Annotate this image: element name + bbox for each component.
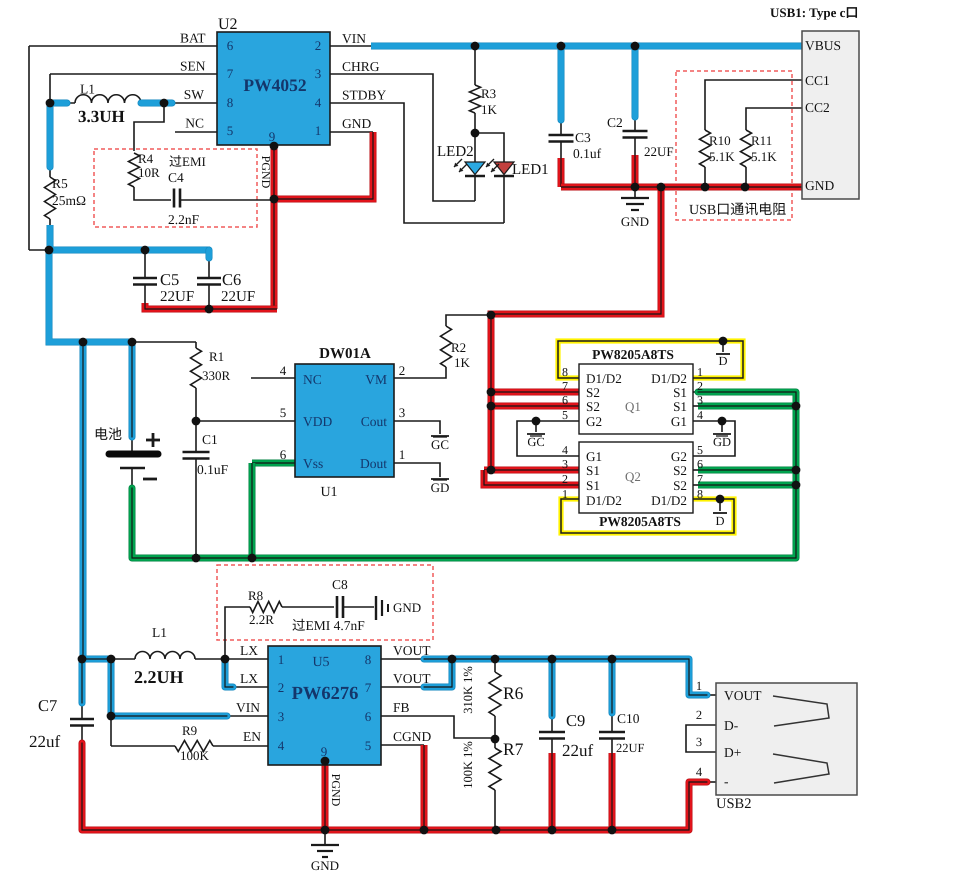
svg-text:C9: C9 — [566, 711, 585, 730]
svg-text:VM: VM — [365, 372, 387, 387]
svg-text:6: 6 — [697, 457, 703, 471]
svg-text:-: - — [724, 774, 729, 789]
svg-text:S1: S1 — [673, 399, 687, 414]
svg-text:C10: C10 — [617, 711, 640, 726]
svg-text:R4: R4 — [138, 151, 154, 166]
svg-text:LX: LX — [240, 671, 258, 686]
svg-text:3: 3 — [315, 66, 322, 81]
svg-text:USB1: Type c口: USB1: Type c口 — [770, 5, 858, 20]
svg-text:R5: R5 — [52, 176, 68, 191]
svg-text:PW6276: PW6276 — [292, 684, 359, 704]
svg-text:G1: G1 — [586, 449, 602, 464]
svg-text:PW8205A8TS: PW8205A8TS — [592, 347, 674, 362]
svg-text:VDD: VDD — [303, 414, 332, 429]
svg-text:5: 5 — [365, 738, 372, 753]
svg-text:Q2: Q2 — [625, 469, 641, 484]
svg-text:过EMI 4.7nF: 过EMI 4.7nF — [292, 618, 365, 633]
svg-text:5.1K: 5.1K — [751, 149, 777, 164]
svg-text:USB2: USB2 — [716, 796, 751, 812]
svg-text:GC: GC — [527, 435, 544, 449]
svg-text:0.1uF: 0.1uF — [197, 462, 229, 477]
svg-text:3: 3 — [399, 405, 406, 420]
svg-text:Q1: Q1 — [625, 399, 641, 414]
svg-text:C8: C8 — [332, 577, 348, 592]
svg-text:1: 1 — [697, 365, 703, 379]
svg-text:EN: EN — [243, 729, 261, 744]
svg-text:R7: R7 — [503, 739, 524, 759]
svg-text:3: 3 — [562, 457, 568, 471]
svg-text:4: 4 — [697, 408, 703, 422]
svg-text:LED2: LED2 — [437, 144, 474, 160]
svg-text:L1: L1 — [152, 625, 167, 640]
svg-text:3: 3 — [278, 709, 285, 724]
svg-text:U1: U1 — [320, 485, 337, 500]
svg-text:DW01A: DW01A — [319, 346, 371, 362]
svg-text:R11: R11 — [751, 133, 772, 148]
svg-text:G2: G2 — [671, 449, 687, 464]
svg-text:BAT: BAT — [180, 31, 206, 46]
svg-text:8: 8 — [227, 95, 234, 110]
svg-text:S2: S2 — [673, 478, 687, 493]
svg-text:5.1K: 5.1K — [709, 149, 735, 164]
svg-text:22UF: 22UF — [616, 741, 645, 755]
svg-text:S2: S2 — [673, 463, 687, 478]
svg-text:D1/D2: D1/D2 — [651, 493, 687, 508]
svg-text:2: 2 — [697, 379, 703, 393]
svg-text:VBUS: VBUS — [805, 38, 841, 53]
svg-text:CHRG: CHRG — [342, 59, 380, 74]
svg-text:GC: GC — [431, 437, 449, 452]
svg-text:GD: GD — [713, 435, 731, 449]
svg-text:过EMI: 过EMI — [169, 154, 206, 169]
svg-text:2.2nF: 2.2nF — [168, 212, 200, 227]
svg-text:G2: G2 — [586, 414, 602, 429]
svg-text:D+: D+ — [724, 745, 741, 760]
svg-text:VOUT: VOUT — [393, 643, 431, 658]
svg-text:CC2: CC2 — [805, 100, 830, 115]
svg-text:2.2UH: 2.2UH — [134, 667, 184, 687]
svg-text:U5: U5 — [312, 655, 329, 670]
svg-text:6: 6 — [562, 393, 568, 407]
svg-text:CC1: CC1 — [805, 73, 830, 88]
svg-text:2: 2 — [278, 680, 285, 695]
svg-text:8: 8 — [562, 365, 568, 379]
svg-text:VIN: VIN — [342, 31, 366, 46]
svg-text:C2: C2 — [607, 115, 623, 130]
svg-text:PW8205A8TS: PW8205A8TS — [599, 514, 681, 529]
svg-text:3: 3 — [696, 735, 702, 749]
svg-text:D: D — [718, 354, 727, 368]
svg-text:R8: R8 — [248, 588, 263, 603]
svg-text:Dout: Dout — [360, 456, 387, 471]
svg-text:1: 1 — [399, 447, 406, 462]
svg-text:PW4052: PW4052 — [243, 75, 306, 95]
svg-text:SW: SW — [184, 87, 205, 102]
svg-text:1K: 1K — [481, 102, 498, 117]
svg-text:0.1uf: 0.1uf — [573, 146, 602, 161]
svg-text:2.2R: 2.2R — [249, 612, 274, 627]
svg-text:2: 2 — [399, 363, 406, 378]
svg-text:LED1: LED1 — [512, 162, 549, 178]
svg-text:2: 2 — [562, 472, 568, 486]
svg-text:GND: GND — [342, 116, 371, 131]
svg-text:4: 4 — [315, 95, 322, 110]
svg-text:GD: GD — [431, 480, 450, 495]
svg-text:R3: R3 — [481, 86, 496, 101]
svg-text:6: 6 — [365, 709, 372, 724]
svg-text:G1: G1 — [671, 414, 687, 429]
svg-text:10R: 10R — [138, 165, 160, 180]
svg-text:Cout: Cout — [361, 414, 388, 429]
svg-text:7: 7 — [227, 66, 234, 81]
svg-text:2: 2 — [315, 38, 322, 53]
svg-text:22UF: 22UF — [160, 289, 194, 305]
svg-text:NC: NC — [185, 116, 204, 131]
svg-text:4: 4 — [696, 765, 703, 779]
svg-text:100K 1%: 100K 1% — [461, 741, 475, 789]
svg-text:3: 3 — [697, 393, 703, 407]
svg-text:6: 6 — [280, 447, 287, 462]
svg-text:NC: NC — [303, 372, 322, 387]
svg-text:9: 9 — [269, 129, 276, 144]
svg-text:VOUT: VOUT — [724, 688, 762, 703]
svg-text:GND: GND — [311, 858, 339, 873]
svg-text:Vss: Vss — [303, 456, 323, 471]
svg-text:C1: C1 — [202, 432, 218, 447]
svg-text:S1: S1 — [586, 478, 600, 493]
svg-text:C6: C6 — [222, 270, 241, 289]
svg-text:C4: C4 — [168, 170, 184, 185]
svg-text:5: 5 — [227, 123, 234, 138]
svg-text:D: D — [715, 514, 724, 528]
svg-text:C5: C5 — [160, 270, 179, 289]
svg-text:PGND: PGND — [259, 156, 273, 189]
svg-text:4: 4 — [278, 738, 285, 753]
svg-text:1: 1 — [278, 652, 285, 667]
svg-text:3.3UH: 3.3UH — [78, 107, 125, 126]
svg-text:8: 8 — [697, 487, 703, 501]
svg-text:1K: 1K — [454, 355, 471, 370]
svg-text:GND: GND — [393, 600, 421, 615]
svg-text:5: 5 — [697, 443, 703, 457]
svg-text:L1: L1 — [80, 82, 95, 97]
svg-text:S2: S2 — [586, 385, 600, 400]
svg-text:1: 1 — [696, 679, 702, 693]
svg-text:5: 5 — [280, 405, 287, 420]
svg-text:D-: D- — [724, 718, 739, 733]
svg-text:VOUT: VOUT — [393, 671, 431, 686]
svg-text:U2: U2 — [218, 16, 238, 33]
svg-text:6: 6 — [227, 38, 234, 53]
svg-text:D1/D2: D1/D2 — [651, 371, 687, 386]
svg-text:22UF: 22UF — [221, 289, 255, 305]
svg-text:1: 1 — [562, 487, 568, 501]
svg-text:5: 5 — [562, 408, 568, 422]
svg-text:GND: GND — [805, 178, 834, 193]
svg-text:22UF: 22UF — [644, 144, 674, 159]
svg-text:25mΩ: 25mΩ — [52, 193, 86, 208]
svg-text:R2: R2 — [451, 340, 466, 355]
svg-text:100K: 100K — [180, 748, 210, 763]
svg-text:7: 7 — [562, 379, 568, 393]
svg-text:330R: 330R — [202, 368, 231, 383]
svg-text:USB口通讯电阻: USB口通讯电阻 — [689, 202, 786, 218]
svg-text:D1/D2: D1/D2 — [586, 371, 622, 386]
svg-text:电池: 电池 — [94, 427, 122, 443]
svg-text:D1/D2: D1/D2 — [586, 493, 622, 508]
svg-text:4: 4 — [562, 443, 568, 457]
svg-text:STDBY: STDBY — [342, 88, 387, 103]
svg-text:S2: S2 — [586, 399, 600, 414]
svg-text:4: 4 — [280, 363, 287, 378]
svg-text:R6: R6 — [503, 683, 524, 703]
svg-text:PGND: PGND — [329, 774, 343, 807]
svg-text:LX: LX — [240, 643, 258, 658]
svg-text:FB: FB — [393, 700, 410, 715]
svg-text:7: 7 — [365, 680, 372, 695]
svg-text:R1: R1 — [209, 349, 224, 364]
svg-text:1: 1 — [315, 123, 322, 138]
svg-text:22uf: 22uf — [29, 732, 61, 751]
svg-text:S1: S1 — [586, 463, 600, 478]
svg-text:7: 7 — [697, 472, 703, 486]
svg-text:R9: R9 — [182, 723, 197, 738]
svg-text:SEN: SEN — [180, 59, 206, 74]
svg-text:C7: C7 — [38, 696, 57, 715]
svg-text:S1: S1 — [673, 385, 687, 400]
svg-text:22uf: 22uf — [562, 741, 594, 760]
svg-text:310K 1%: 310K 1% — [461, 666, 475, 714]
svg-text:9: 9 — [321, 744, 328, 759]
svg-text:VIN: VIN — [236, 700, 260, 715]
svg-text:2: 2 — [696, 708, 702, 722]
svg-text:8: 8 — [365, 652, 372, 667]
svg-text:GND: GND — [621, 214, 649, 229]
svg-text:R10: R10 — [709, 133, 731, 148]
svg-text:C3: C3 — [575, 130, 591, 145]
svg-text:CGND: CGND — [393, 729, 432, 744]
